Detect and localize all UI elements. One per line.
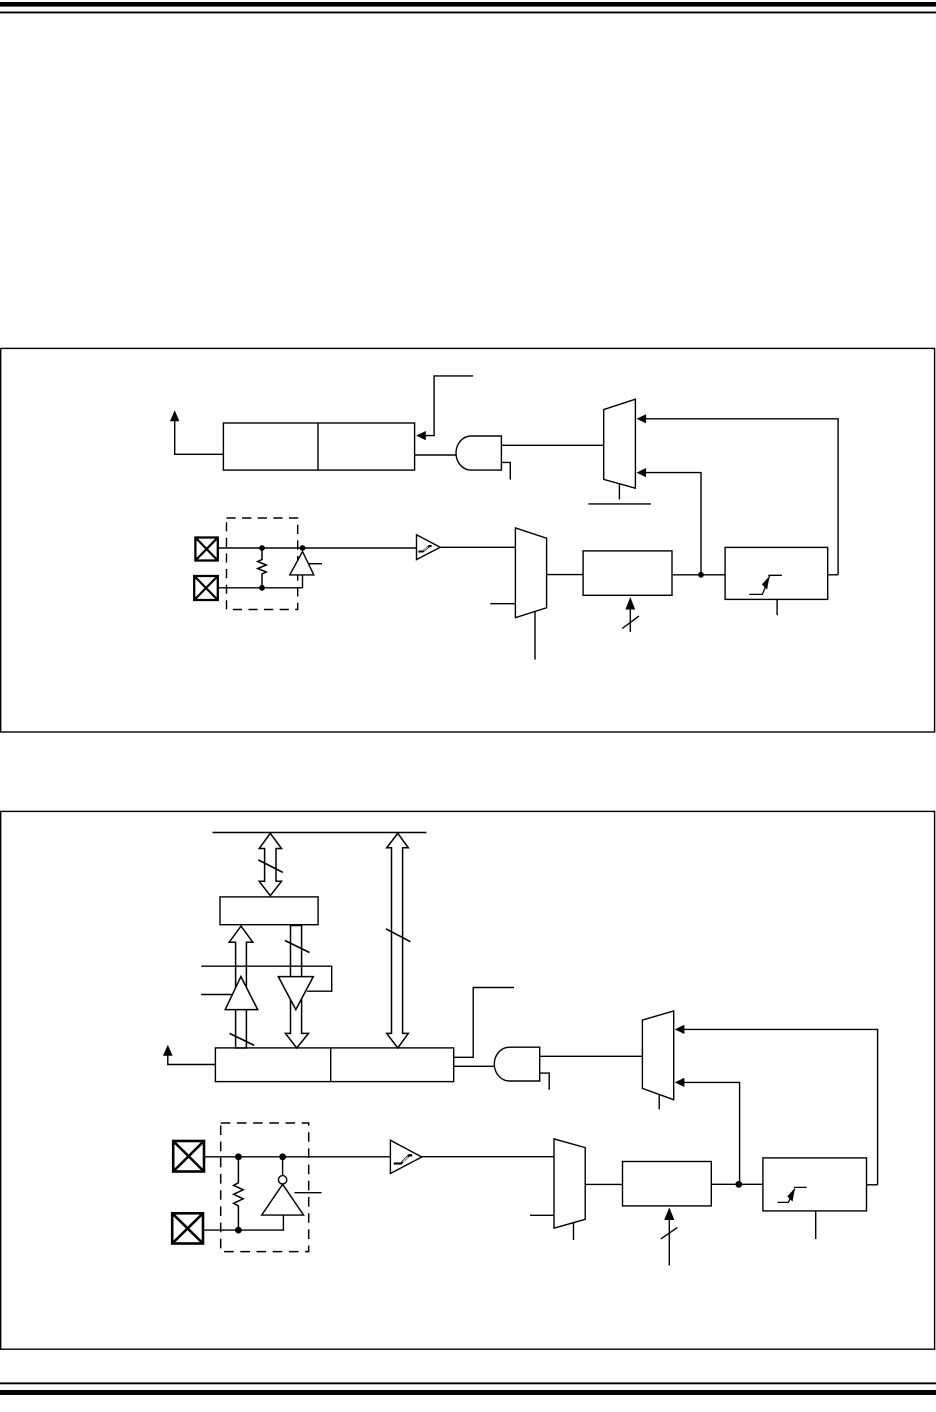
op-amp buffer: Schmitt trigger B1 D1 [417, 535, 441, 560]
bus-width slash on tall arrow D2 [386, 929, 411, 942]
buffer triangle write (down) D2 [278, 977, 313, 1010]
synchronize block D2 [763, 1158, 867, 1211]
internal data bus line D2 [213, 832, 427, 834]
bus arrow: timer write (down) D2 [285, 926, 308, 1049]
wire: read TMR1L strobe D2 [201, 966, 332, 991]
buffer triangle read (up) D2 [225, 977, 258, 1010]
wire: set flag output stem D1 [175, 421, 224, 454]
arrowhead: feedback into mux M1 top D1 [637, 414, 647, 423]
figure frame 1 (Timer1 block diagram) [1, 348, 935, 732]
wire: top rail junction to inverter bubble D2 [282, 1157, 284, 1176]
bus arrow: data bus to TMR1H buffer (double) D2 [259, 833, 281, 895]
arrow: set TMR1IF flag (up) D1 [170, 410, 179, 421]
op-amp gate: AND U2 (mirrored) D2 [494, 1047, 539, 1081]
resistor R1 (zigzag) D1 [258, 548, 267, 588]
wire: oscillator top rail D2 [204, 1156, 390, 1158]
wire: prescaled clock to mux M3 bottom D2 [683, 1082, 740, 1184]
wire: oscillator bottom rail D2 [204, 1229, 284, 1231]
label overbar under mux M1 D1 [588, 503, 651, 505]
wire: prescaler output to sync D2 [711, 1183, 763, 1185]
node: junction dot top-left D1 [259, 545, 265, 551]
bus-width slash on read arrow D2 [230, 1033, 255, 1045]
arrowhead: clock into mux M1 bottom D1 [637, 468, 647, 477]
dashed oscillator enclosure D1 [227, 518, 298, 610]
mux M2 trapezoid D1 [515, 528, 546, 618]
dashed oscillator enclosure D2 [221, 1123, 309, 1252]
wire: clock input L D2 [454, 988, 514, 1058]
wire: sync clock stub below D1 [776, 599, 778, 615]
wire: mux M2 output to prescaler D1 [547, 574, 584, 576]
pin T1OSI (crossed pad) D1 [194, 576, 218, 600]
wire: AND gate output to register D1 [415, 454, 456, 456]
wire: mux output to AND gate D2 [540, 1055, 643, 1057]
resistor R2 (zigzag) D2 [234, 1157, 244, 1230]
arrowhead: clock into mux M3 bottom D2 [675, 1078, 685, 1087]
wire: mux output to AND gate D1 [501, 444, 603, 446]
sync edge symbol D2 [778, 1187, 807, 1202]
page footer thin rule [0, 1382, 936, 1384]
bus arrow: TMR1L data bus (tall double) D2 [387, 833, 409, 1048]
register divider D2 [330, 1048, 332, 1082]
arrow: set TMR1IF flag (up) D2 [163, 1045, 173, 1056]
Schmitt hysteresis mark B2 D2 [394, 1155, 412, 1163]
wire: sync output to feedback D2 [867, 1184, 878, 1186]
wire: clock input L D1 [425, 376, 473, 436]
mux M1 trapezoid D1 [604, 399, 636, 488]
node: junction dot prescaler output D2 [735, 1181, 742, 1188]
node: junction dot bottom D1 [259, 585, 265, 591]
wire: write TMR1L strobe D2 [201, 994, 232, 996]
op-amp buffer: Schmitt trigger B2 D2 [390, 1140, 421, 1173]
wire: mux M1 select stub D1 [618, 484, 620, 499]
page header thick rule [0, 2, 936, 7]
wire: mux M3 select stub D2 [658, 1095, 660, 1110]
node: junction dot at inverter apex D1 [300, 545, 306, 551]
wire: sync output to feedback D1 [828, 574, 838, 576]
wire: oscillator top rail D1 [219, 547, 417, 549]
synchronize block D1 [725, 547, 828, 599]
bus-width slash on write arrow D2 [285, 941, 310, 953]
wire: prescaler select stem D1 [629, 609, 631, 632]
transistor inverter Q1 (triangle up) D1 [290, 552, 314, 575]
wire: mux M4 output to prescaler D2 [585, 1183, 622, 1185]
arrowhead on sync edge symbol D1 [762, 576, 770, 590]
wire: inverter base to bottom rail D1 [302, 575, 304, 588]
mux M3 trapezoid D2 [642, 1011, 673, 1100]
prescaler block D2 [623, 1162, 712, 1206]
wire: inverter enable stub D1 [309, 563, 323, 565]
page footer thick rule [0, 1390, 936, 1395]
arrowhead: feedback into mux M3 top D2 [675, 1025, 685, 1034]
pin T1OSI (crossed pad) D2 [172, 1213, 203, 1243]
page header thin rule [0, 12, 936, 14]
register TMR1H:TMR1L D1 [223, 423, 414, 470]
wire: inverter base to bottom rail D2 [282, 1215, 284, 1230]
mux M4 trapezoid D2 [554, 1139, 585, 1228]
wire: Schmitt output to mux M4 D2 [422, 1156, 554, 1158]
wire: inverter enable stub D2 [295, 1192, 322, 1194]
prescaler block D1 [583, 551, 672, 595]
Schmitt hysteresis mark B1 D1 [418, 546, 431, 551]
wire: AND gate enable hook D2 [540, 1073, 550, 1090]
bus-width slash on prescaler select D2 [661, 1227, 678, 1239]
wire: sync clock stub below D2 [815, 1211, 817, 1239]
bus-width slash on prescaler select D1 [622, 616, 639, 628]
register TMR1 (high/low) D2 [215, 1048, 453, 1082]
transistor inverter Q2 (triangle up with bubble) D2 [262, 1184, 304, 1215]
pin T1OSO (crossed pad) D2 [173, 1141, 204, 1172]
arrowhead on sync edge symbol D2 [787, 1188, 795, 1202]
bus arrow: timer read (up) D2 [229, 926, 253, 1048]
wire: mux M2 select stub D1 [534, 612, 536, 660]
node: junction dot at inverter bubble D2 [279, 1153, 286, 1160]
sync edge symbol D1 [749, 575, 782, 594]
wire: Fosc/4 input stub to mux M4 D2 [530, 1214, 554, 1216]
node: junction dot top-left D2 [235, 1153, 242, 1160]
wire: mux M4 select stub D2 [573, 1223, 575, 1240]
inverter bubble D2 [278, 1176, 286, 1184]
wire: register to AND gate D2 [454, 1065, 496, 1067]
op-amp gate: AND U1 (mirrored) D1 [456, 436, 501, 470]
bus-width slash on TMR1H bus arrow D2 [258, 860, 283, 873]
wire: oscillator bottom rail D1 [219, 587, 303, 589]
wire: Fosc/4 input stub to mux M2 D1 [490, 603, 515, 605]
pin T1OSO (crossed pad) D1 [195, 538, 217, 561]
register TMR1H buffer D2 [220, 897, 318, 925]
node: junction dot prescaler output D1 [698, 572, 704, 578]
arrowhead: prescaler select (up) D2 [664, 1208, 674, 1221]
wire: AND gate enable hook D1 [501, 462, 510, 479]
arrowhead: clock into register D1 [416, 431, 426, 440]
wire: prescaler select stem D2 [668, 1219, 670, 1266]
node: junction dot bottom D2 [235, 1227, 242, 1234]
wire: prescaled clock to mux M1 bottom D1 [645, 473, 701, 575]
wire: set flag output stem D2 [168, 1055, 216, 1065]
arrowhead: prescaler select (up) D1 [625, 597, 635, 610]
wire: prescaler output to sync D1 [672, 574, 725, 576]
wire: feedback top to mux M3 D2 [683, 1029, 878, 1184]
register divider D1 [317, 423, 319, 470]
figure frame 2 (Timer1 16-bit read/write mode block diagram) [1, 811, 935, 1349]
wire: feedback top to mux M1 D1 [645, 419, 838, 575]
wire: Schmitt output to mux M2 D1 [440, 546, 515, 548]
